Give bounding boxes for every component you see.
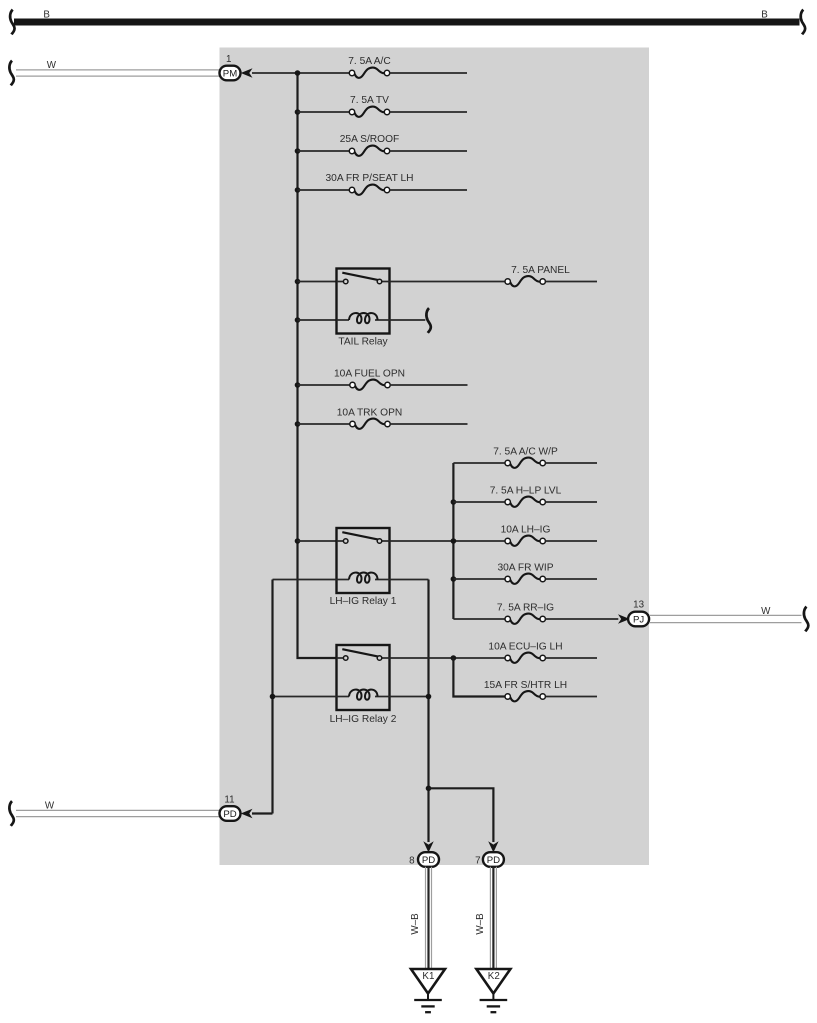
svg-text:7. 5A RR–IG: 7. 5A RR–IG xyxy=(497,602,554,613)
wire fuse PANEL output xyxy=(545,281,597,283)
svg-text:PD: PD xyxy=(223,809,236,820)
svg-text:10A FUEL OPN: 10A FUEL OPN xyxy=(334,368,405,379)
node: junction relay 2 coil feed xyxy=(270,694,276,700)
relay TAIL Relay xyxy=(337,269,390,334)
wire LH-IG Relay 1 coil feed from PD11 riser xyxy=(273,579,337,581)
wire TAIL relay coil output xyxy=(390,319,426,321)
svg-text:10A TRK OPN: 10A TRK OPN xyxy=(337,407,403,418)
wire fuse S/HTR output xyxy=(545,696,597,698)
wire fuse LH-IG output xyxy=(545,540,597,542)
svg-text:11: 11 xyxy=(224,795,234,806)
svg-text:25A S/ROOF: 25A S/ROOF xyxy=(340,134,399,145)
wire PD11 arrow to riser xyxy=(252,812,273,814)
wire LH-IG Relay 2 switch to fuse ECU-IG xyxy=(390,657,506,659)
relay LH-IG Relay 2 xyxy=(337,645,390,710)
wire bus to TAIL relay switch xyxy=(298,281,337,283)
node: feeder junction H-LP LVL xyxy=(451,499,457,505)
node: bus junction row 2 xyxy=(295,109,301,115)
node: junction relay 2 coil return xyxy=(426,694,432,700)
svg-text:30A FR WIP: 30A FR WIP xyxy=(497,562,553,573)
fuse F6 10A FUEL OPN xyxy=(350,380,390,390)
svg-text:B: B xyxy=(43,9,50,20)
wire LH-IG Relay 1 switch to fuse LH-IG xyxy=(390,540,506,542)
fuse F7 10A TRK OPN xyxy=(350,419,390,429)
svg-text:TAIL Relay: TAIL Relay xyxy=(338,337,388,348)
wire feeder to fuse A/C W/P xyxy=(453,462,505,464)
node: bus junction TAIL relay switch xyxy=(295,279,301,285)
fuse F1 7. 5A A/C xyxy=(349,68,389,78)
svg-text:LH–IG Relay 1: LH–IG Relay 1 xyxy=(330,596,397,607)
wire bus to fuse TRK OPN xyxy=(298,423,350,425)
connector PJ xyxy=(628,612,649,627)
continuation squiggle, bus bar left end xyxy=(10,10,14,35)
continuation squiggle, bus bar right end xyxy=(801,10,805,35)
continuation squiggle, TAIL relay coil xyxy=(426,308,430,333)
fuse F11 30A FR WIP xyxy=(505,574,545,584)
wire feeder to fuse RR-IG xyxy=(453,618,505,620)
node: junction ground branch xyxy=(426,786,432,792)
wire W-B from PD 7 to ground K2 xyxy=(490,867,496,969)
wire fuse A/C output xyxy=(390,72,467,74)
node: bus junction TAIL relay coil xyxy=(295,317,301,323)
wire fuse RR-IG to connector PJ xyxy=(545,618,618,620)
wire bus to LH-IG Relay 1 switch xyxy=(298,540,337,542)
connector PD pin 8 xyxy=(418,852,439,867)
fuse F3 25A S/ROOF xyxy=(349,146,389,156)
arrow into PD 7 xyxy=(488,841,498,852)
wire fuse ECU-IG output xyxy=(545,657,597,659)
svg-text:10A ECU–IG LH: 10A ECU–IG LH xyxy=(488,641,562,652)
svg-text:7. 5A PANEL: 7. 5A PANEL xyxy=(511,265,570,276)
wire LH-IG Relay 1 coil return xyxy=(390,579,429,581)
branch wire to PD pin 7 xyxy=(429,788,494,842)
wire bus to fuse S/ROOF xyxy=(298,150,350,152)
svg-text:LH–IG Relay 2: LH–IG Relay 2 xyxy=(330,714,397,725)
node: feeder junction FR WIP xyxy=(451,576,457,582)
fuse F10 10A LH-IG xyxy=(505,536,545,546)
svg-text:13: 13 xyxy=(633,600,644,611)
node: junction ECU-IG feeder xyxy=(451,655,457,661)
ground point K1 xyxy=(411,969,445,1012)
continuation squiggle, bottom W wire xyxy=(9,801,13,826)
node: bus junction TRK OPN xyxy=(295,421,301,427)
connector PD pin 7 xyxy=(483,852,504,867)
ground point K2 xyxy=(476,969,510,1012)
connector PD pin 11 xyxy=(220,806,241,821)
bus bar B (battery feed) xyxy=(14,19,800,26)
svg-text:PJ: PJ xyxy=(633,615,644,626)
svg-text:K1: K1 xyxy=(422,971,434,982)
svg-text:B: B xyxy=(761,9,768,20)
riser wire to connector PD pin 11 xyxy=(271,580,273,814)
wire W (white) to connector PD pin 11 xyxy=(16,810,220,816)
fuse F13 10A ECU-IG LH xyxy=(505,653,545,663)
wire W-B from PD 8 to ground K1 xyxy=(426,867,432,969)
node: feeder junction LH-IG xyxy=(451,538,457,544)
svg-text:PD: PD xyxy=(487,855,500,866)
wire fuse TRK OPN output xyxy=(390,423,467,425)
svg-text:7. 5A H–LP LVL: 7. 5A H–LP LVL xyxy=(490,485,562,496)
arrow into PM xyxy=(241,68,253,78)
svg-text:30A FR P/SEAT LH: 30A FR P/SEAT LH xyxy=(326,173,414,184)
coil return riser to PD pin 8 xyxy=(427,580,429,843)
wire fuse FR WIP output xyxy=(545,578,597,580)
fuse F8 7. 5A A/C W/P xyxy=(505,458,545,468)
wire fuse S/ROOF output xyxy=(390,150,467,152)
wire W (white) from PJ xyxy=(649,615,801,622)
wire feeder to fuse FR WIP xyxy=(453,578,505,580)
node: bus junction LH-IG Relay 1 switch xyxy=(295,538,301,544)
wire feeder to fuse H-LP LVL xyxy=(453,501,505,503)
wire fuse A/C W/P output xyxy=(545,462,597,464)
svg-text:PD: PD xyxy=(422,855,435,866)
svg-text:7. 5A TV: 7. 5A TV xyxy=(350,95,389,106)
relay LH-IG Relay 1 xyxy=(337,528,390,593)
wire fuse TV output xyxy=(390,111,467,113)
main bus from PM to LH-IG Relay 2 xyxy=(298,73,337,658)
continuation squiggle, right W wire xyxy=(804,607,808,632)
node: bus junction row 3 xyxy=(295,148,301,154)
svg-text:W: W xyxy=(761,606,771,617)
svg-text:7. 5A A/C W/P: 7. 5A A/C W/P xyxy=(493,446,558,457)
wire bus to TAIL relay coil xyxy=(298,319,337,321)
fuse F12 7. 5A RR-IG xyxy=(505,614,545,624)
fuse F2 7. 5A TV xyxy=(349,107,389,117)
arrow into PD 11 xyxy=(241,809,253,819)
wire bus to fuse TV xyxy=(298,111,350,113)
wire fuse H-LP LVL output xyxy=(545,501,597,503)
fuse block cover (shaded panel) xyxy=(220,48,650,866)
svg-text:W–B: W–B xyxy=(410,913,421,935)
continuation squiggle, W wire left end xyxy=(9,61,13,86)
svg-text:W: W xyxy=(45,801,55,812)
svg-text:PM: PM xyxy=(223,69,237,80)
svg-text:1: 1 xyxy=(226,54,231,65)
fuse F5 7. 5A PANEL xyxy=(505,276,545,286)
svg-text:7: 7 xyxy=(475,855,480,866)
svg-text:W: W xyxy=(47,60,57,71)
fuse F9 7. 5A H-LP LVL xyxy=(505,497,545,507)
branch wire to fuse S/HTR xyxy=(453,658,505,697)
svg-text:15A FR S/HTR LH: 15A FR S/HTR LH xyxy=(484,680,567,691)
arrow into PJ xyxy=(618,614,630,624)
wire bus to fuse FR P/SEAT LH xyxy=(298,189,350,191)
svg-text:8: 8 xyxy=(409,855,415,866)
feeder bus from LH-IG Relay 1 xyxy=(452,463,454,619)
arrow into PD 8 xyxy=(423,841,433,852)
wire LH-IG Relay 2 coil feed xyxy=(273,696,337,698)
wire W (white) to connector PM xyxy=(16,70,220,76)
wire LH-IG Relay 2 coil return xyxy=(390,696,429,698)
wire TAIL relay switch to fuse PANEL xyxy=(390,281,506,283)
wire PM to fuse 7.5A A/C xyxy=(252,72,349,74)
connector PM xyxy=(220,66,241,81)
node: bus junction row 1 xyxy=(295,70,301,76)
wire fuse FUEL OPN output xyxy=(390,384,467,386)
svg-text:K2: K2 xyxy=(488,971,500,982)
wire fuse FR P/SEAT output xyxy=(390,189,467,191)
svg-text:10A LH–IG: 10A LH–IG xyxy=(501,524,551,535)
fuse F4 30A FR P/SEAT LH xyxy=(349,185,389,195)
svg-text:7. 5A A/C: 7. 5A A/C xyxy=(348,56,390,67)
node: bus junction row 4 xyxy=(295,187,301,193)
svg-text:W–B: W–B xyxy=(475,913,486,935)
fuse F14 15A FR S/HTR LH xyxy=(505,691,545,701)
node: bus junction FUEL OPN xyxy=(295,382,301,388)
wire bus to fuse FUEL OPN xyxy=(298,384,350,386)
